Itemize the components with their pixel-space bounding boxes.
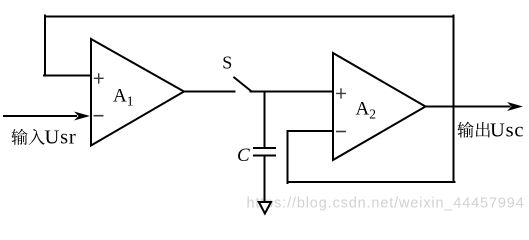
- A2 + pin label: [337, 89, 345, 98]
- node: capacitor tap junction: [264, 92, 266, 148]
- wire: A1 output to switch: [184, 91, 235, 93]
- svg-text:Usc: Usc: [490, 119, 524, 141]
- label input Usr: [11, 127, 76, 149]
- capacitor C top plate: [254, 147, 275, 149]
- wire: capacitor to ground: [264, 156, 266, 202]
- ground (hollow arrow): [259, 202, 271, 214]
- svg-text:Usr: Usr: [45, 127, 77, 149]
- A2 - pin label: [337, 131, 345, 133]
- wire: left vertical down to + input: [44, 16, 46, 76]
- wire: A2 output with arrow: [426, 102, 524, 111]
- op-amp A1: [91, 39, 184, 146]
- wire: feedback left vertical: [287, 131, 289, 183]
- switch S blade: [234, 78, 251, 92]
- wire: top feedback from A2 output to A1 noninverting input: [45, 16, 454, 18]
- capacitor C bottom plate: [254, 155, 275, 157]
- wire: right vertical feedback (A2 output node): [453, 16, 455, 183]
- wire: switch to A2 + input: [251, 91, 334, 93]
- A1 - pin label: [94, 115, 102, 117]
- svg-text:S: S: [222, 53, 232, 73]
- wire: horizontal into A1 + input: [44, 75, 91, 77]
- wire: bottom feedback horizontal: [288, 181, 455, 183]
- op-amp A2: [333, 53, 426, 160]
- wire: input signal with arrow into A1 inverting input: [4, 112, 90, 121]
- label output Usc: [457, 119, 524, 141]
- A1 + pin label: [95, 74, 104, 83]
- svg-text:https://blog.csdn.net/weixin_4: https://blog.csdn.net/weixin_44457994: [247, 196, 525, 212]
- svg-text:C: C: [237, 145, 250, 166]
- wire: into A2 inverting input: [288, 130, 334, 132]
